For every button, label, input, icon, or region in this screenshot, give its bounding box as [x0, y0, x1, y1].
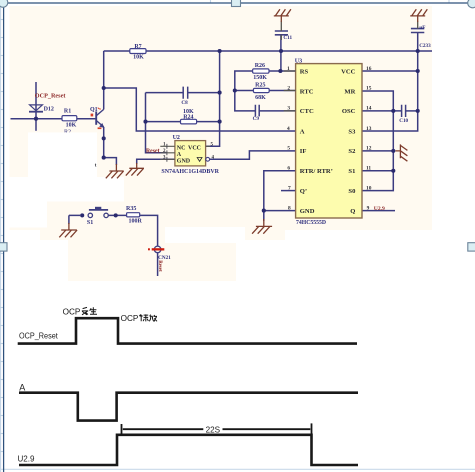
IC U3 74HC5555D [284, 58, 385, 226]
resistor R26 [253, 69, 269, 73]
ground at U3 pin 12 [396, 144, 408, 161]
svg-text:Q’: Q’ [300, 188, 307, 195]
svg-text:OCP_Reset: OCP_Reset [19, 331, 58, 341]
svg-text:15: 15 [366, 85, 372, 91]
waveform OCP_Reset [18, 318, 357, 343]
svg-text:8: 8 [288, 205, 291, 211]
Q1 red pin letters [91, 108, 102, 130]
junction C10 left OSC node [391, 109, 395, 113]
wire Q1 emitter drop [103, 127, 105, 158]
svg-text:R35: R35 [126, 206, 136, 212]
wire R24 right [197, 121, 220, 123]
junction S1 switch left [80, 213, 84, 217]
svg-text:7: 7 [288, 185, 291, 191]
svg-text:68K: 68K [255, 95, 266, 101]
wire emitter to ground [104, 158, 117, 165]
svg-text:13: 13 [366, 126, 372, 132]
wire R25 left [235, 90, 254, 92]
svg-text:R1: R1 [64, 109, 71, 115]
junction emitter node upper [102, 136, 106, 140]
wire R24 left [146, 121, 181, 123]
wire R7 left [104, 50, 130, 52]
svg-text:S1: S1 [348, 168, 355, 175]
svg-text:C233: C233 [419, 43, 431, 49]
waveform A [19, 393, 358, 421]
capacitor C8 [183, 87, 188, 99]
resistor R35 [127, 213, 140, 217]
svg-text:150K: 150K [253, 75, 267, 81]
IC U2 SN74AHC1G14DBVR [146, 135, 220, 175]
junction R25 left RC node [233, 88, 237, 92]
svg-text:S0: S0 [348, 188, 356, 195]
wire U3 pin 6 to ground node [264, 171, 296, 221]
svg-text:U2: U2 [173, 135, 180, 141]
waveform U2.9 [19, 435, 358, 465]
junction S1 switch right [114, 213, 118, 217]
wire R35 to CN21 [140, 215, 158, 246]
svg-text:S2: S2 [348, 148, 356, 155]
svg-text:RTC: RTC [300, 88, 314, 95]
svg-text:VCC: VCC [341, 68, 356, 75]
capacitor C10 [402, 105, 406, 117]
wire C11 to pin1 node vertical [280, 35, 282, 71]
svg-text:4: 4 [287, 126, 290, 132]
svg-text:C9: C9 [253, 116, 260, 122]
wire U2 pin 4 to U3 pin 5 [210, 151, 296, 159]
svg-text:C10: C10 [399, 118, 408, 124]
junction S1 pin node [391, 169, 395, 173]
wire R25 right to U3 pin 2 [269, 90, 295, 92]
svg-text:NC: NC [177, 146, 186, 152]
capacitor C11 [275, 31, 288, 35]
wire C10 right [406, 110, 418, 112]
svg-text:S3: S3 [348, 128, 356, 135]
wire U3 pin 16 VCC [362, 70, 418, 72]
wire U3 pin 12 S2 [362, 150, 393, 152]
svg-text:Q1: Q1 [90, 107, 98, 113]
resistor R7 [130, 49, 146, 54]
ground below Q1 [106, 164, 124, 178]
svg-text:RTR/ RTR’: RTR/ RTR’ [300, 168, 333, 175]
svg-text:74HC5555D: 74HC5555D [296, 220, 326, 226]
wire VCC drop to U2 pin 5 [206, 51, 220, 146]
junction D12 anode node [34, 117, 38, 121]
svg-text:R26: R26 [255, 63, 265, 69]
resistor R1 [62, 116, 77, 121]
svg-text:A: A [177, 152, 182, 158]
svg-text:GND: GND [177, 158, 191, 164]
wire VCC top bus R7 right [146, 50, 432, 52]
capacitor C11 pin stems [280, 22, 282, 41]
junction R7 right on VCC bus [218, 49, 222, 53]
svg-text:OCP: OCP [63, 307, 81, 316]
wire U2 pin 3 to ground [137, 159, 175, 164]
switch S1 [88, 207, 108, 218]
junction U3 pin 1 node [278, 69, 282, 73]
junction C10 right [416, 109, 420, 113]
svg-text:6: 6 [287, 166, 290, 172]
svg-text:R25: R25 [255, 83, 265, 89]
svg-text:Reset: Reset [157, 260, 162, 272]
wire Q1 collector riser [103, 51, 105, 109]
junction C11 on VCC bus [279, 49, 283, 53]
wire R26 right to U3 pin 1 [269, 70, 296, 72]
svg-text:D12: D12 [44, 107, 54, 113]
wire U3 pin 8 to node [264, 210, 296, 212]
wire U3 pin 14 OSC to C10 [362, 110, 401, 112]
junction S2 ground node [391, 149, 395, 153]
capacitor C233 [411, 29, 424, 33]
capacitor C233 pin stem [417, 22, 419, 29]
wire C9 right to U3 pin 3 [259, 110, 295, 112]
svg-text:A: A [19, 382, 25, 392]
wire C8 right [188, 92, 220, 94]
svg-text:SN74AHC1G14DBVR: SN74AHC1G14DBVR [161, 169, 219, 175]
svg-text:10: 10 [366, 185, 372, 191]
svg-text:U3: U3 [295, 58, 302, 64]
svg-text:IF: IF [300, 148, 307, 155]
svg-text:OSC: OSC [342, 108, 356, 115]
junction R24 left [143, 120, 147, 124]
wire U3 pin 15 MR loop to S2 S1 S0 [362, 91, 393, 191]
svg-text:10K: 10K [66, 123, 77, 129]
resistor R24 [181, 119, 197, 124]
resistor R25 [253, 88, 269, 92]
wire U3 pin 11 S1 [362, 170, 393, 172]
svg-text:U2.9: U2.9 [374, 206, 385, 212]
svg-text:22S: 22S [206, 424, 221, 434]
svg-text:Q: Q [350, 208, 355, 215]
svg-text:C11: C11 [283, 35, 292, 41]
junction R24 right [218, 120, 222, 124]
svg-text:C8: C8 [181, 100, 188, 106]
svg-text:1: 1 [287, 66, 290, 72]
wire OCP_Reset net stub through D12 [35, 82, 37, 131]
svg-text:9: 9 [367, 205, 370, 211]
wire collector tap to U3 pin 4 [104, 88, 296, 131]
svg-text:11: 11 [366, 166, 371, 172]
wire C233 vertical to S3 [362, 33, 418, 131]
svg-text:U2.9: U2.9 [18, 453, 35, 463]
svg-text:3: 3 [287, 106, 290, 112]
ground above C233 [410, 9, 427, 22]
svg-text:CTC: CTC [300, 108, 314, 115]
junction C233 on VCC bus [416, 49, 420, 53]
wire S1 left to ground [69, 215, 80, 224]
connector CN21 [148, 246, 171, 272]
svg-text:16: 16 [366, 66, 372, 72]
svg-text:OCP: OCP [121, 314, 139, 323]
ground below U2 [126, 163, 144, 176]
ground below U3 GND [252, 219, 272, 234]
junction Q1 collector tap [102, 86, 106, 90]
junction U3 pin 16 VCC node [416, 69, 420, 73]
svg-text:R24: R24 [183, 114, 193, 120]
svg-text:GND: GND [300, 208, 315, 215]
dimension line 22S [122, 423, 312, 439]
wire CN21 lower stub [157, 253, 159, 276]
capacitor C9 [255, 105, 259, 117]
svg-text:uF: uF [419, 25, 425, 31]
svg-text:Reset: Reset [146, 149, 160, 155]
svg-text:OCP_Reset: OCP_Reset [35, 92, 67, 99]
svg-text:R7: R7 [134, 44, 141, 50]
svg-text:10K: 10K [133, 55, 144, 61]
wire U3 pin 9 net U2.9 [362, 210, 395, 212]
svg-text:14: 14 [366, 106, 372, 112]
diode D12 [29, 105, 43, 112]
svg-text:2: 2 [287, 85, 290, 91]
wire RC node R26 left down [235, 71, 255, 111]
svg-text:5: 5 [287, 146, 290, 152]
junction C8 right [218, 91, 222, 95]
svg-text:S1: S1 [87, 220, 93, 226]
ground above C11 [274, 9, 291, 22]
wire R1 to Q1 base [77, 118, 96, 120]
svg-text:VCC: VCC [188, 146, 201, 152]
wire U3 pin 7 stub [281, 190, 296, 192]
svg-text:12: 12 [366, 146, 372, 152]
svg-text:A: A [300, 128, 305, 135]
junction emitter node lower [102, 156, 106, 160]
wire C8 left [146, 92, 184, 94]
svg-text:t: t [95, 162, 97, 168]
wire S1 right to R35 [108, 214, 126, 216]
svg-text:MR: MR [344, 88, 355, 95]
svg-text:100R: 100R [129, 219, 143, 225]
wire feedback vertical to U2 pin 2 [146, 93, 167, 153]
transistor Q1 [96, 109, 104, 127]
wire input net left [11, 118, 63, 120]
svg-text:RS: RS [300, 68, 309, 75]
ground below S1 [59, 223, 77, 237]
junction U3 GND node [262, 209, 266, 213]
